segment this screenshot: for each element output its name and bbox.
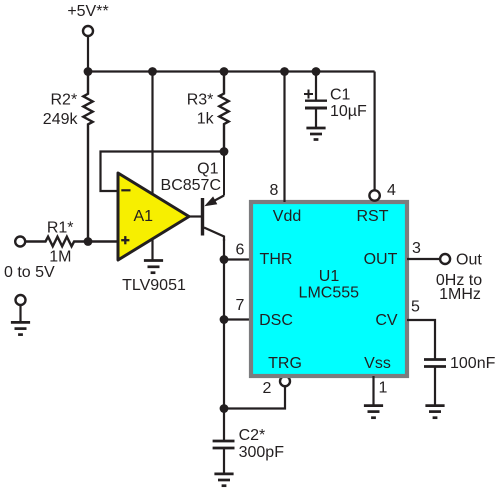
wire RST pin 4 from rail [374,72,376,191]
junction dot rail at C1 [312,67,321,76]
svg-text:R3*: R3* [187,91,214,108]
wire OUT pin 3 [407,258,440,260]
wire +5V stem [87,36,89,72]
op-amp A1 [118,173,189,260]
svg-text:+5V**: +5V** [67,3,108,20]
junction dot rail at pin 8 [280,67,289,76]
svg-text:U1: U1 [319,268,340,285]
svg-text:BC857C: BC857C [161,177,221,194]
ground (source) [11,322,30,334]
wire CV pin 5 [407,320,435,359]
svg-text:TLV9051: TLV9051 [122,277,186,294]
ground (C1) [306,128,325,140]
wire THR pin 6 [224,258,251,260]
svg-text:10µF: 10µF [330,103,367,120]
junction dot rail at R2 [84,67,93,76]
wire op-amp output to Q1 base [189,215,201,217]
svg-text:1k: 1k [197,110,215,127]
svg-text:1: 1 [379,380,388,397]
wire TRG pin 2 to C2 node [224,386,285,408]
junction dot R3 bottom / emitter node [220,147,229,156]
svg-text:CV: CV [375,312,398,329]
svg-text:THR: THR [260,251,293,268]
svg-text:100nF: 100nF [450,355,496,372]
capacitor C2 [213,441,235,448]
IC U1 LMC555 [251,202,407,376]
wire Vss pin 1 to ground [372,376,374,406]
svg-text:Out: Out [456,252,482,269]
resistor R2 [83,72,92,242]
wire Vdd pin 8 [283,72,285,203]
capacitor C1 [305,72,327,129]
ground (100nF) [425,406,444,418]
svg-text:Vdd: Vdd [273,208,301,225]
svg-text:8: 8 [270,182,279,199]
svg-text:1MHz: 1MHz [439,286,481,303]
svg-text:Q1: Q1 [197,160,218,177]
svg-text:OUT: OUT [364,251,398,268]
svg-text:TRG: TRG [268,355,302,372]
resistor R3 [219,72,228,152]
svg-text:Vss: Vss [364,355,391,372]
svg-text:A1: A1 [134,208,154,225]
svg-text:0 to 5V: 0 to 5V [4,264,55,281]
transistor Q1 [203,152,225,242]
svg-text:300pF: 300pF [239,444,285,461]
junction dot rail at R3 [220,67,229,76]
node TRG terminal circle [280,376,290,386]
svg-text:249k: 249k [43,111,79,128]
svg-text:C2*: C2* [239,427,266,444]
svg-text:C1: C1 [330,87,351,104]
resistor R1 [25,237,118,247]
wire top supply rail [88,70,375,72]
junction dot DSC node [220,315,229,324]
ground (C2) [214,474,233,486]
ground (op-amp) [144,261,163,273]
node input terminal [15,237,25,247]
wire DSC pin 7 [224,318,251,320]
svg-text:DSC: DSC [259,312,293,329]
wire collector down to C2 [223,239,225,441]
wire C2 bottom to ground [223,448,225,474]
node +5V terminal [83,26,93,36]
junction dot TRG node [220,404,229,413]
junction dot rail at op-amp supply [148,67,157,76]
svg-text:6: 6 [236,241,245,258]
wire terminal to ground [19,305,21,322]
ground (Vss) [364,406,383,418]
svg-text:2: 2 [263,380,272,397]
wire 100nF to ground [434,367,436,406]
wire op-amp ground stem [151,238,153,261]
node OUT terminal circle [440,254,450,264]
junction dot THR node [220,255,229,264]
junction dot R1 / R2 node [84,237,93,246]
svg-text:3: 3 [412,240,421,257]
node RST terminal circle [369,190,379,200]
svg-text:LMC555: LMC555 [299,285,360,302]
svg-text:1M: 1M [49,248,71,265]
svg-text:R1*: R1* [47,220,74,237]
label C1 plus [304,90,313,99]
node source ground terminal [16,295,26,305]
svg-text:7: 7 [236,297,245,314]
svg-text:RST: RST [357,208,389,225]
capacitor 100nF [424,360,446,367]
wire feedback R3 bottom to inverting input [101,152,225,192]
svg-text:4: 4 [387,182,396,199]
svg-text:R2*: R2* [51,92,78,109]
svg-text:5: 5 [411,299,420,316]
wire op-amp V+ supply [151,72,153,197]
